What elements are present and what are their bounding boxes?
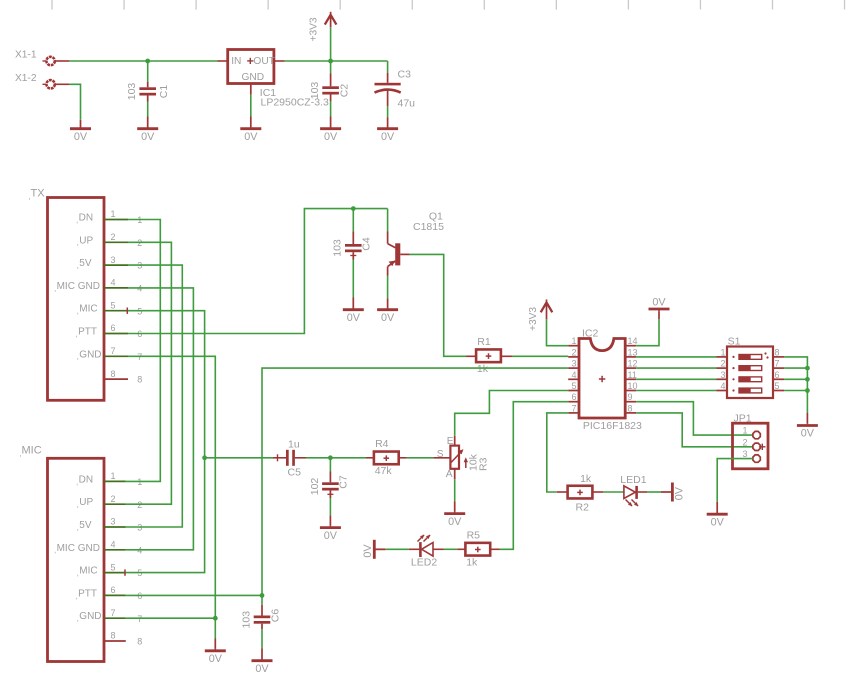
- svg-text:+3V3: +3V3: [528, 307, 539, 331]
- svg-text:R5: R5: [467, 529, 481, 541]
- svg-text:0V: 0V: [673, 486, 685, 500]
- svg-text:R1: R1: [477, 336, 491, 348]
- svg-text:GND: GND: [79, 349, 101, 360]
- svg-text:GND: GND: [79, 611, 101, 622]
- svg-text:0V: 0V: [381, 131, 395, 143]
- svg-text:‚: ‚: [77, 500, 79, 509]
- svg-text:‚: ‚: [77, 238, 79, 247]
- svg-text:2: 2: [571, 347, 576, 357]
- svg-text:A: A: [446, 469, 453, 480]
- svg-text:S1: S1: [728, 336, 741, 348]
- svg-text:1: 1: [111, 471, 116, 481]
- svg-text:2: 2: [111, 232, 116, 242]
- svg-text:3: 3: [111, 255, 116, 265]
- svg-text:IN: IN: [231, 56, 241, 67]
- svg-text:6: 6: [775, 370, 780, 380]
- svg-text:5V: 5V: [79, 520, 92, 531]
- svg-text:3: 3: [571, 359, 576, 369]
- svg-text:C5: C5: [288, 467, 302, 479]
- svg-text:0V: 0V: [448, 516, 462, 528]
- svg-text:MIC: MIC: [79, 566, 97, 577]
- svg-text:PTT: PTT: [78, 327, 97, 338]
- svg-text:1k: 1k: [477, 363, 489, 375]
- svg-text:3: 3: [742, 449, 747, 459]
- svg-text:PTT: PTT: [78, 588, 97, 599]
- svg-text:7: 7: [111, 608, 116, 618]
- svg-text:0V: 0V: [801, 428, 815, 440]
- svg-text:R3: R3: [478, 457, 490, 471]
- svg-text:X1-2: X1-2: [15, 73, 37, 84]
- svg-text:C7: C7: [338, 475, 350, 489]
- svg-text:2: 2: [742, 437, 747, 447]
- svg-text:5: 5: [775, 381, 780, 391]
- svg-text:9: 9: [628, 392, 633, 402]
- svg-text:1u: 1u: [288, 438, 300, 450]
- svg-text:C1: C1: [158, 85, 170, 99]
- svg-text:0V: 0V: [74, 131, 88, 143]
- svg-text:PIC16F1823: PIC16F1823: [583, 420, 642, 432]
- svg-text:102: 102: [309, 478, 321, 496]
- svg-text:‚: ‚: [77, 523, 79, 532]
- svg-text:0V: 0V: [711, 516, 725, 528]
- svg-text:13: 13: [628, 347, 638, 357]
- svg-text:1: 1: [720, 347, 725, 357]
- svg-text:7: 7: [111, 346, 116, 356]
- svg-text:4: 4: [111, 540, 116, 550]
- svg-text:11: 11: [628, 370, 637, 380]
- svg-text:‚: ‚: [76, 477, 78, 486]
- svg-text:MIC: MIC: [22, 445, 42, 457]
- svg-text:8: 8: [137, 375, 142, 385]
- svg-text:0V: 0V: [209, 653, 223, 665]
- svg-text:2: 2: [720, 359, 725, 369]
- svg-text:5: 5: [111, 300, 116, 310]
- svg-text:+3V3: +3V3: [309, 17, 320, 41]
- svg-text:0V: 0V: [362, 544, 374, 558]
- svg-text:‚: ‚: [76, 591, 78, 600]
- svg-text:‚: ‚: [76, 215, 78, 224]
- svg-text:0V: 0V: [255, 663, 269, 675]
- svg-text:0V: 0V: [347, 312, 361, 324]
- svg-text:DN: DN: [79, 474, 93, 485]
- svg-text:4: 4: [720, 381, 725, 391]
- svg-text:103: 103: [126, 83, 138, 101]
- svg-text:C1815: C1815: [413, 221, 444, 233]
- svg-text:‚: ‚: [77, 352, 79, 361]
- svg-text:UP: UP: [79, 235, 93, 246]
- svg-text:1: 1: [111, 209, 116, 219]
- svg-text:S: S: [437, 449, 444, 460]
- svg-text:5: 5: [571, 381, 576, 391]
- svg-text:7: 7: [775, 359, 780, 369]
- svg-text:R2: R2: [576, 501, 590, 513]
- svg-text:‚: ‚: [76, 329, 78, 338]
- svg-text:6: 6: [571, 392, 576, 402]
- svg-text:LED1: LED1: [620, 474, 646, 486]
- svg-text:8: 8: [775, 347, 780, 357]
- svg-text:‚: ‚: [54, 284, 56, 293]
- svg-text:1k: 1k: [466, 556, 478, 568]
- svg-text:5V: 5V: [79, 258, 92, 269]
- svg-text:7: 7: [571, 403, 576, 413]
- svg-text:‚: ‚: [77, 261, 79, 270]
- svg-text:103: 103: [309, 82, 321, 100]
- svg-text:GND: GND: [242, 72, 265, 83]
- svg-text:‚: ‚: [20, 449, 22, 458]
- svg-text:‚: ‚: [29, 192, 31, 201]
- svg-text:0V: 0V: [381, 312, 395, 324]
- svg-text:IC2: IC2: [582, 328, 599, 340]
- svg-text:8: 8: [628, 403, 633, 413]
- svg-text:0V: 0V: [652, 297, 666, 309]
- svg-text:UP: UP: [79, 497, 93, 508]
- svg-text:TX: TX: [31, 187, 46, 199]
- svg-text:47k: 47k: [375, 465, 393, 477]
- svg-text:8: 8: [111, 631, 116, 641]
- svg-text:‚: ‚: [54, 546, 56, 555]
- svg-text:1: 1: [571, 336, 576, 346]
- svg-text:R4: R4: [375, 438, 389, 450]
- svg-text:3: 3: [111, 517, 116, 527]
- svg-text:2: 2: [111, 494, 116, 504]
- svg-text:14: 14: [628, 336, 638, 346]
- svg-text:12: 12: [628, 359, 638, 369]
- svg-text:‚: ‚: [77, 307, 79, 316]
- svg-text:MIC GND: MIC GND: [57, 281, 100, 292]
- svg-text:4: 4: [111, 278, 116, 288]
- svg-text:JP1: JP1: [734, 413, 752, 425]
- svg-text:3: 3: [720, 370, 725, 380]
- svg-text:8: 8: [137, 637, 142, 647]
- svg-text:C6: C6: [269, 609, 281, 623]
- svg-text:C4: C4: [361, 237, 373, 251]
- svg-text:8: 8: [111, 369, 116, 379]
- svg-text:OUT: OUT: [253, 56, 275, 67]
- svg-text:‚: ‚: [77, 614, 79, 623]
- svg-text:6: 6: [111, 585, 116, 595]
- svg-text:47u: 47u: [398, 98, 416, 110]
- svg-text:DN: DN: [79, 213, 93, 224]
- svg-text:6: 6: [111, 323, 116, 333]
- svg-text:10: 10: [628, 381, 638, 391]
- svg-text:E: E: [447, 436, 454, 447]
- svg-text:4: 4: [571, 370, 576, 380]
- svg-text:103: 103: [331, 239, 343, 257]
- svg-text:0V: 0V: [324, 131, 338, 143]
- svg-text:0V: 0V: [324, 530, 338, 542]
- svg-text:C3: C3: [398, 68, 412, 80]
- svg-text:MIC GND: MIC GND: [57, 543, 100, 554]
- svg-text:0V: 0V: [244, 131, 258, 143]
- svg-text:0V: 0V: [141, 131, 155, 143]
- svg-text:103: 103: [241, 611, 253, 629]
- svg-text:LED2: LED2: [411, 556, 437, 568]
- svg-text:MIC: MIC: [79, 304, 97, 315]
- svg-text:5: 5: [111, 562, 116, 572]
- svg-text:‚: ‚: [77, 569, 79, 578]
- svg-text:C2: C2: [338, 84, 350, 98]
- svg-text:X1-1: X1-1: [15, 50, 37, 61]
- svg-text:1: 1: [742, 426, 747, 436]
- svg-text:1k: 1k: [580, 473, 592, 485]
